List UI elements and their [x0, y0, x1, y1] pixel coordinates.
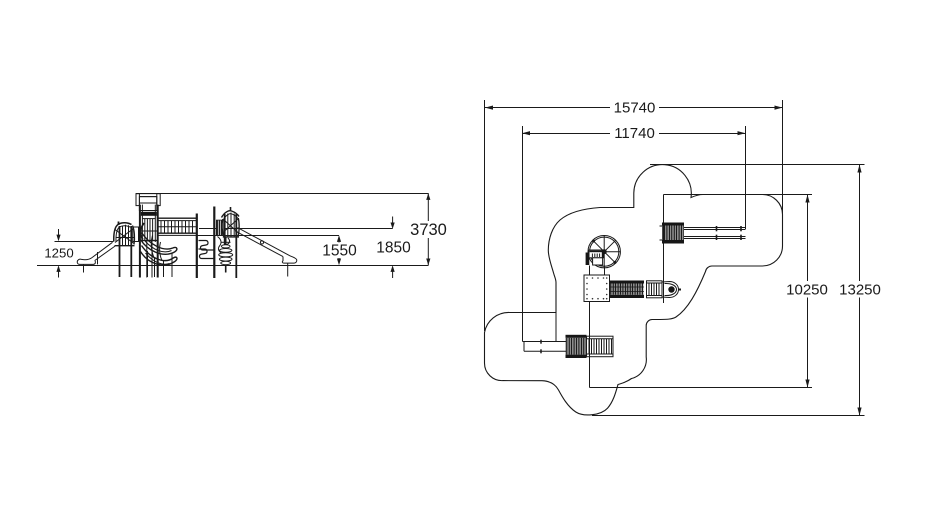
- platform top line / extension 10250: [664, 194, 813, 196]
- deck connectors: [590, 266, 605, 276]
- net bridge: [158, 218, 197, 235]
- safety area blob outline: [484, 165, 782, 415]
- text 11740: [614, 125, 655, 142]
- extension line left 15740: [484, 100, 486, 331]
- hatched platform: [216, 220, 224, 236]
- ground line: [37, 265, 429, 267]
- svg-text:1250: 1250: [44, 246, 73, 261]
- bridge hatched: [610, 281, 645, 299]
- caterpillar climber: [219, 237, 233, 273]
- left slide: [77, 242, 115, 272]
- equipment vertical line right: [663, 195, 665, 304]
- 3730 reference line: [136, 193, 428, 195]
- main tower roof box: [136, 194, 160, 211]
- middle pole A: [196, 214, 198, 279]
- 1550 reference line: [197, 235, 339, 237]
- dimension 1250: [56, 229, 60, 278]
- svg-text:11740: 11740: [614, 125, 655, 142]
- spiral slide (side view): [141, 223, 177, 277]
- bottom-left slide block: [566, 335, 587, 358]
- pod end: [662, 282, 681, 298]
- extension line bottom 13250: [592, 415, 865, 417]
- spiral slide entry boxes: [586, 250, 605, 265]
- dimension 1850: [391, 217, 395, 279]
- svg-text:15740: 15740: [614, 100, 656, 117]
- right slide: [235, 228, 297, 277]
- text 15740: [614, 100, 656, 117]
- extension line right 11740: [745, 126, 747, 229]
- deck square: [584, 275, 610, 302]
- wave climber: [199, 241, 214, 259]
- extension line left 11740: [522, 126, 524, 342]
- text 1850: [376, 240, 411, 257]
- top-right slide rails: [684, 226, 746, 240]
- svg-text:1550: 1550: [322, 243, 357, 260]
- dimension 13250: [857, 165, 861, 416]
- svg-text:10250: 10250: [786, 282, 828, 299]
- svg-text:3730: 3730: [410, 221, 447, 239]
- dimension 10250: [805, 195, 809, 388]
- top-right slide block: [660, 223, 685, 244]
- bottom-left slide rails: [523, 340, 567, 354]
- bottom-left ladder block: [587, 336, 614, 357]
- extension line top 13250: [650, 164, 865, 166]
- right tower basket: [222, 207, 240, 278]
- spiral slide plan circles: [588, 236, 620, 268]
- middle pole B: [213, 207, 215, 279]
- svg-text:1850: 1850: [376, 240, 411, 257]
- left tower basket: [114, 222, 139, 278]
- text 13250: [839, 282, 881, 299]
- 1850 reference line: [199, 228, 393, 230]
- svg-text:13250: 13250: [839, 282, 881, 299]
- ladder block: [647, 281, 663, 298]
- dimension 3730: [426, 193, 430, 265]
- 1250 reference line: [55, 241, 114, 243]
- equipment line mid-left: [555, 313, 557, 342]
- elevation misc posts: [98, 240, 153, 278]
- text 1250: [44, 246, 73, 261]
- dimension 1550: [337, 235, 341, 265]
- text 3730: [410, 221, 447, 239]
- extension line bottom 10250: [590, 387, 813, 389]
- dimension 11740: [522, 131, 746, 135]
- main tower body: [140, 205, 158, 278]
- extension line right 15740: [782, 100, 784, 220]
- dimension 15740: [485, 106, 783, 110]
- text 10250: [786, 282, 828, 299]
- text 1550: [322, 243, 357, 260]
- rope S: [218, 237, 222, 254]
- equipment vertical line left: [589, 266, 591, 388]
